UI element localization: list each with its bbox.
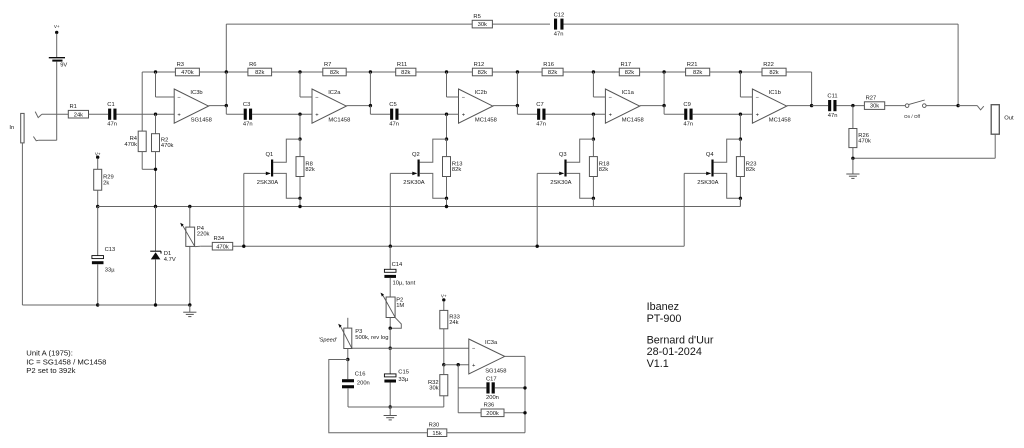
resistor R30 [427,423,446,437]
svg-text:V+: V+ [441,294,447,299]
wire R32 top [443,365,445,375]
wire battery positive [56,34,58,58]
capacitor C13 [92,247,115,273]
resistor R32 [428,375,448,396]
potentiometer P2 [381,293,405,318]
wire Q4 drain leg [739,114,741,139]
wire R33 top [443,301,445,310]
title block [647,301,714,370]
ground symbol left [183,305,196,317]
svg-text:R27: R27 [866,95,877,101]
svg-text:15k: 15k [432,431,441,437]
wire P2 bottom [389,318,391,329]
svg-text:C15: C15 [398,370,409,376]
svg-text:82k: 82k [769,70,778,76]
capacitor C7 [536,102,546,127]
svg-text:Out: Out [1004,116,1014,122]
node Q1 bias rail [298,205,301,208]
transistor Q4 2SK30A [697,152,718,186]
wire IC2b output [493,72,518,106]
op-amp IC1b [752,89,790,124]
svg-text:MC1458: MC1458 [328,118,350,124]
node Q2 gate LFO rail [389,245,392,248]
wire R29 bottom [97,190,99,206]
wire R27 to switch [885,105,906,107]
svg-text:500k, rev log: 500k, rev log [355,335,388,341]
resistor R6 [248,62,272,76]
svg-text:24k: 24k [449,320,458,326]
wire C14 to P2 [389,278,391,297]
node IC2b output rail [516,70,519,73]
svg-text:C3: C3 [243,102,250,108]
svg-text:SG1458: SG1458 [485,368,506,374]
svg-text:R17: R17 [621,62,632,68]
wire R33 bottom [443,329,445,365]
svg-text:IC2a: IC2a [328,90,341,96]
svg-text:C13: C13 [105,247,116,253]
transistor Q3 2SK30A [550,152,571,186]
svg-text:1M: 1M [396,303,404,309]
wire R30 right [447,432,525,434]
transistor Q1 2SK30A [257,152,278,186]
capacitor C12 [554,12,565,37]
node IC1a output [662,104,665,107]
node Q4 source join [739,197,742,200]
svg-text:Ibanez: Ibanez [647,301,679,313]
op-amp IC3a [469,339,507,374]
resistor R34 [212,236,232,250]
resistor R11 [396,62,416,76]
svg-text:V+: V+ [54,24,60,29]
wire jack sleeve to ground rail [22,143,97,305]
wire R26 bottom [852,148,854,159]
wire C3 right [252,113,312,115]
svg-text:470k: 470k [181,70,194,76]
svg-text:220k: 220k [197,231,210,237]
wire Q4 gate [684,172,711,176]
svg-text:'Speed': 'Speed' [319,338,338,344]
svg-text:200n: 200n [357,381,370,387]
wire R8 bottom [299,177,301,199]
node Q1 source join [298,197,301,200]
node C17 R36 tap [457,363,460,366]
node R2 tap [154,113,157,116]
wire C1 to IC3b noninverting input [117,113,175,115]
node P3 C16 R30 [346,358,349,361]
resistor R29 [94,169,114,190]
node IC3b output rail [225,70,228,73]
wire out node to jack tip [958,105,977,107]
wire Q2 drain [420,139,447,162]
node output [956,104,959,107]
svg-text:IC1b: IC1b [769,90,781,96]
node IC2b inverting [445,70,448,73]
wire R8 top [299,139,301,157]
svg-text:2SK30A: 2SK30A [257,180,278,186]
wire R7 to R11 [346,71,396,73]
wire R18 top [592,139,594,157]
transistor Q2 2SK30A [403,152,424,186]
note unit A [26,349,106,375]
svg-text:470k: 470k [124,142,137,148]
wire C3 left [226,106,243,115]
wire Q3 drain leg [592,114,594,139]
svg-text:Q4: Q4 [706,152,715,158]
node C9 FET tap [739,113,742,116]
wire P4 wiper to R34 [195,245,212,247]
wire R30 loop left [329,360,428,433]
resistor R3 [175,62,199,76]
svg-text:P2 set to 392k: P2 set to 392k [26,366,75,375]
resistor R12 [472,62,492,76]
node Q2 top [445,137,448,140]
svg-text:47n: 47n [828,113,838,119]
svg-text:82k: 82k [305,167,314,173]
svg-text:C17: C17 [486,377,497,383]
capacitor C16 [342,371,370,388]
wire C7 left [517,106,537,115]
resistor R7 [323,62,346,76]
op-amp IC2a [312,89,350,124]
wire Q3 drain [567,139,594,162]
svg-text:R34: R34 [214,236,225,242]
wire R2 bottom to bias rail [155,152,157,207]
svg-text:R7: R7 [324,62,331,68]
node Q3 top [592,137,595,140]
wire P4 bottom to ground [189,246,191,305]
svg-text:IC = SG1458 / MC1458: IC = SG1458 / MC1458 [26,357,106,366]
node C5 FET tap [445,113,448,116]
wire IC1b output [787,105,812,107]
jack sleeve contact [33,137,38,141]
resistor R4 [124,131,146,152]
svg-text:Q3: Q3 [559,152,567,158]
wire P2 wiper [390,318,401,328]
wire rail left end to R4 leg [142,71,175,73]
jack J1 In [9,113,24,142]
wire C9 left [664,106,684,115]
node speed line C15 [389,347,392,350]
wire Q4 gate drop [683,173,685,246]
wire bias rail [98,198,741,206]
svg-text:24k: 24k [74,112,83,118]
resistor R5 [472,14,492,28]
resistor R2 [152,134,174,152]
svg-text:IC3b: IC3b [190,90,202,96]
wire C13 bottom [97,264,99,305]
svg-text:SG1458: SG1458 [191,118,212,124]
wire Q3 to bias rail [592,198,594,206]
node P4 ground rail [188,303,191,306]
resistor R8 [296,157,315,177]
svg-text:Q1: Q1 [266,152,274,158]
svg-text:82k: 82k [693,70,702,76]
wire Q4 drain [714,139,741,162]
svg-text:C14: C14 [392,262,403,268]
wire R18 bottom [592,177,594,199]
svg-text:R5: R5 [473,14,480,20]
wire IC1b inverting input [740,72,752,97]
node Q2 bias rail [445,205,448,208]
svg-text:R12: R12 [474,62,485,68]
wire R4 bottom [142,152,155,170]
wire R23 bottom [739,177,741,199]
svg-text:R6: R6 [249,62,256,68]
switch SW1 On/Off [904,100,926,119]
node IC2a inverting [298,70,301,73]
wire ground line to R32 [390,396,444,407]
svg-text:V+: V+ [95,151,101,156]
wire Q1 drain leg [299,114,301,139]
resistor R17 [619,62,639,76]
wire R23 top [739,139,741,157]
wire C15 top [389,348,391,374]
jack tip contact [35,112,42,118]
wire R26 top [852,106,854,129]
wire Q1 drain [273,139,300,162]
svg-text:2SK30A: 2SK30A [697,180,718,186]
resistor R16 [542,62,563,76]
svg-text:IC1a: IC1a [622,90,635,96]
node IC1a output rail [662,70,665,73]
node V+ R29 [95,151,101,159]
node R33 R32 plus [442,363,445,366]
svg-text:82k: 82k [746,167,755,173]
node Q1 top [298,137,301,140]
capacitor C5 [389,102,399,127]
wire P4 top [189,207,191,228]
potentiometer P3 [319,318,389,349]
svg-text:MC1458: MC1458 [475,118,497,124]
wire R4 top leg [141,72,143,131]
svg-text:82k: 82k [548,70,557,76]
wire Q2 gate [390,172,417,176]
wire R36 line [458,412,525,414]
svg-text:47n: 47n [389,121,399,127]
wire plus line IC3a [444,364,469,366]
node R2 R4 join [154,168,157,171]
node Q4 top [739,137,742,140]
svg-text:C5: C5 [389,102,396,108]
svg-text:82k: 82k [330,70,339,76]
wire P2 to speed line [389,328,391,348]
wire Q3 gate [537,172,564,176]
capacitor C17 [486,377,499,401]
resistor R23 [736,157,756,177]
node R26 ground [851,157,854,160]
wire C9 right [693,113,753,115]
svg-text:47n: 47n [554,32,564,38]
node Q3 source join [592,197,595,200]
capacitor C3 [243,102,253,127]
wire R13 top [446,139,448,157]
svg-text:Q2: Q2 [412,152,420,158]
wire IC1a output [640,72,664,106]
svg-text:47n: 47n [536,121,546,127]
capacitor C9 [683,102,693,127]
wire Q3 gate drop [536,173,538,246]
node C17 output [523,386,526,389]
svg-text:82k: 82k [255,70,264,76]
svg-text:C9: C9 [683,102,690,108]
wire Q1 gate [244,172,271,176]
svg-text:9V: 9V [60,63,67,69]
op-amp IC1a [605,89,643,124]
wire tip to R1 [42,113,69,115]
wire P3 bottom [347,349,349,360]
wire Q1 gate drop [243,173,245,246]
wire Q4 to bias rail [739,198,741,206]
jack J2 tip contact [977,106,984,110]
node LFO ground [389,405,392,408]
wire D1 bottom [155,259,157,305]
svg-text:In: In [9,125,14,131]
wire C7 right [546,113,606,115]
wire R29 top [97,158,99,169]
wire C16 bottom [348,388,390,407]
svg-text:33µ: 33µ [105,267,115,273]
svg-text:C16: C16 [355,371,366,377]
jack J2 Out [991,105,1014,135]
wire ground rail [98,304,190,306]
wire C5 right [399,113,459,115]
wire Q2 drain leg [446,114,448,139]
svg-text:82k: 82k [625,70,634,76]
wire top feedback rail [226,24,958,106]
resistor R1 [68,104,88,118]
svg-text:200n: 200n [486,395,499,401]
svg-text:V1.1: V1.1 [647,358,669,370]
capacitor C11 [827,94,837,119]
node R36 output [523,411,526,414]
node V+ R33 [441,294,447,302]
wire IC2a output [346,72,370,106]
svg-text:4.7V: 4.7V [164,257,176,263]
ground symbol output [846,158,859,178]
wire R13 bottom [446,177,448,199]
wire IC3b inverting input [156,72,175,97]
svg-text:Unit A (1975):: Unit A (1975): [26,349,73,358]
diode D1 4.7V [150,251,176,263]
capacitor C1 [107,102,117,127]
svg-text:R16: R16 [543,62,554,68]
wire Q4 source [714,173,741,198]
svg-text:10µ, tant: 10µ, tant [393,281,416,287]
node IC1a inverting [592,70,595,73]
svg-text:30k: 30k [870,104,879,110]
wire R12 to R16 [492,71,542,73]
wire C17 R36 drop [457,365,459,413]
potentiometer P4 [180,223,209,247]
wire R11 to R12 [416,71,473,73]
svg-text:C12: C12 [554,12,565,18]
wire R22 to IC1b output [786,72,812,106]
svg-text:C1: C1 [107,102,114,108]
ground symbol LFO [384,407,397,420]
node V+ battery [54,24,60,34]
svg-text:2SK30A: 2SK30A [550,180,571,186]
svg-text:470k: 470k [161,143,174,149]
node D1 ground rail [154,303,157,306]
svg-text:82k: 82k [452,167,461,173]
node bias rail R2 leg [154,205,157,208]
svg-text:R30: R30 [429,423,440,429]
svg-text:470k: 470k [216,244,229,250]
wire C13 top [97,207,99,256]
svg-text:MC1458: MC1458 [769,118,791,124]
wire Q2 to bias rail [446,198,448,206]
wire C5 left [370,106,390,115]
resistor R26 [849,129,871,148]
wire R6 to R7 [272,71,323,73]
wire R3 to R6 [199,71,248,73]
wire IC1a inverting input [593,72,605,97]
wire switch to out node [926,105,958,107]
resistor R13 [443,157,463,177]
svg-text:On / Off: On / Off [904,114,921,119]
wire R16 to R17 [563,71,619,73]
node IC3b output [225,104,228,107]
resistor R22 [762,62,786,76]
resistor R36 [481,403,504,417]
svg-text:R21: R21 [687,62,698,68]
node C13 ground rail [96,303,99,306]
wire Q2 source [420,173,447,198]
node P4 bias rail [188,205,191,208]
svg-text:82k: 82k [599,167,608,173]
wire C17 line [458,387,525,389]
svg-text:IC3a: IC3a [485,340,498,346]
wire Q3 source [567,173,594,198]
node C7 FET tap [592,113,595,116]
svg-text:33µ: 33µ [398,377,408,383]
wire C11 to R27 [837,105,865,107]
svg-text:R36: R36 [484,403,495,409]
node Q1 gate LFO rail [242,245,245,248]
wire Q1 source [273,173,300,198]
svg-text:C7: C7 [536,102,543,108]
svg-text:2SK30A: 2SK30A [403,180,424,186]
node C11 R27 R26 [851,104,854,107]
resistor R21 [686,62,710,76]
wire R2 top [155,114,157,134]
wire R1 to C1 [89,113,109,115]
svg-text:82k: 82k [478,70,487,76]
wire R21 to R22 [710,71,762,73]
svg-text:28-01-2024: 28-01-2024 [647,346,702,358]
svg-text:470k: 470k [858,139,871,145]
node Q2 source join [445,197,448,200]
node IC1b output [810,104,813,107]
wire Q1 to bias rail [299,198,301,206]
svg-text:47n: 47n [107,121,117,127]
svg-text:C11: C11 [827,94,837,100]
resistor R33 [440,310,460,328]
svg-text:PT-900: PT-900 [647,313,682,325]
node IC2a output [369,104,372,107]
node R29 bias rail [96,205,99,208]
node IC1b inverting [739,70,742,73]
capacitor C15 [384,370,409,383]
wire Q2 gate drop [389,173,391,246]
wire LFO rail [233,245,685,247]
wire speed line [352,347,469,349]
svg-text:Bernard d'Uur: Bernard d'Uur [647,335,714,347]
wire out jack sleeve [853,134,995,158]
node P2 bottom [389,327,392,330]
wire R17 to R21 [640,71,686,73]
wire D1 top [155,207,157,252]
